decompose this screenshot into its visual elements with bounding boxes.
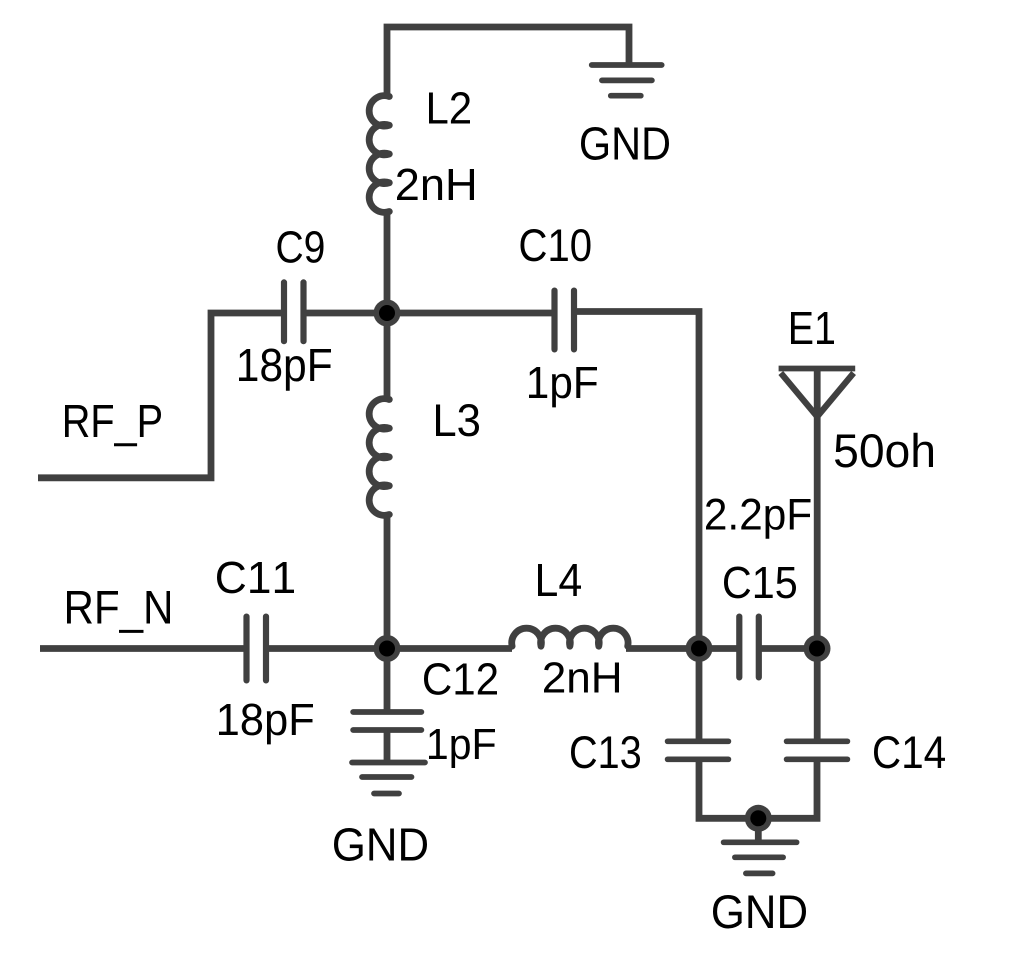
inductor L3 <box>369 313 479 712</box>
inductor L4 <box>512 564 628 693</box>
capacitor C12 <box>353 663 497 768</box>
node E junction dot <box>745 805 772 832</box>
wire: C15 to node D <box>761 645 817 652</box>
wire: L2 bottom lead to node A <box>384 209 391 313</box>
port RF_N <box>67 591 170 633</box>
node A junction dot <box>374 300 401 327</box>
wire: C9 to node A to C10 <box>306 310 552 317</box>
wire: C10 to node B and down to C13 <box>577 312 699 742</box>
inductor L2 <box>369 92 474 212</box>
wire: C13 and C14 bottom leads to node E <box>699 759 817 818</box>
wire: C11 through node C to L4 <box>269 645 512 652</box>
ground top GND <box>581 65 669 160</box>
capacitor C11 <box>217 562 313 745</box>
node C junction dot <box>374 635 401 662</box>
wire: node B to C15 <box>699 645 737 652</box>
ground below C12 <box>334 763 427 862</box>
port RF_P <box>65 405 161 446</box>
wire: RF_N lead to C11 <box>40 645 244 652</box>
wire: node E stub to ground <box>755 818 762 842</box>
wire: RF_P lead to C9 <box>38 313 281 478</box>
capacitor C10 <box>521 229 598 407</box>
antenna E1 <box>779 312 933 741</box>
wire top: L2 top to GND <box>387 27 629 99</box>
ground bottom right <box>713 842 806 928</box>
capacitor C13 <box>571 736 728 768</box>
wire: L4 to node B <box>626 645 699 652</box>
node B junction dot <box>686 635 713 662</box>
capacitor C15 <box>706 499 811 678</box>
node D junction dot <box>804 635 831 662</box>
capacitor C9 <box>239 231 331 391</box>
capacitor C14 <box>787 736 945 768</box>
